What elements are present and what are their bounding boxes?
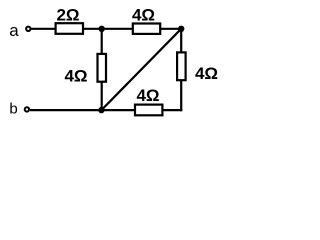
wire: resistor 2Ω to node 1 to resistor 4Ω top	[83, 28, 133, 30]
node 2 (junction dot)	[178, 26, 184, 32]
resistor 4Ω (bottom, horizontal)	[135, 105, 162, 116]
node 1 (junction dot)	[99, 26, 105, 32]
svg-text:4Ω: 4Ω	[136, 86, 159, 105]
svg-text:4Ω: 4Ω	[132, 6, 155, 25]
resistor 4Ω (right, vertical)	[177, 52, 186, 80]
resistor 2Ω (top left, horizontal)	[56, 23, 83, 34]
resistor 4Ω (top right, horizontal)	[133, 24, 160, 34]
wire: left vertical resistor down to node 3	[101, 82, 103, 110]
svg-text:b: b	[9, 101, 17, 118]
wire: resistor 4Ω top to node 2	[160, 28, 182, 30]
wire: bottom resistor 4Ω to bottom-right corner	[163, 109, 183, 111]
terminal b (open circle)	[25, 107, 29, 111]
svg-text:2Ω: 2Ω	[56, 6, 79, 25]
wire: right vertical resistor down to bottom-right corner	[180, 80, 182, 111]
node 3 (junction dot)	[98, 107, 104, 113]
wire: node 2 down to right vertical resistor	[180, 29, 182, 53]
wire: terminal a to resistor 2Ω	[31, 28, 56, 30]
wire: diagonal from node 3 to node 2	[101, 29, 181, 110]
resistor 4Ω (left, vertical)	[98, 54, 107, 82]
svg-text:a: a	[9, 21, 19, 40]
svg-text:4Ω: 4Ω	[195, 64, 218, 83]
terminal a (open circle)	[26, 27, 30, 31]
svg-text:4Ω: 4Ω	[64, 67, 87, 86]
wire: terminal b to node 3 to bottom resistor 4Ω	[30, 109, 135, 111]
wire: node 1 down to left vertical resistor	[101, 29, 103, 54]
